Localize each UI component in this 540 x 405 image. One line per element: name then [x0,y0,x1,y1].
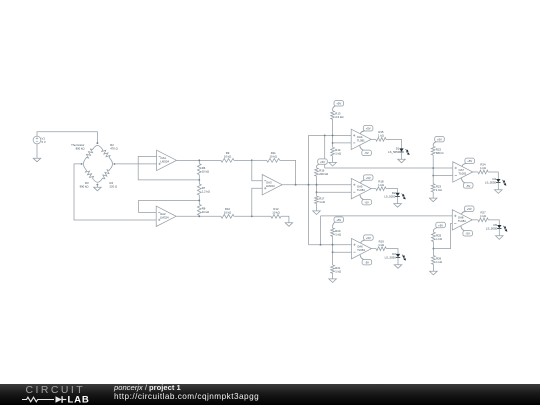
resistor out s2 [376,187,386,191]
wire +row stage3 [309,244,352,246]
svg-text:1 kΩ: 1 kΩ [335,152,341,156]
power +5V box stage 2 [318,159,328,164]
node vA x OA3 row [308,184,310,186]
op-amp OA2 [156,206,176,226]
svg-text:+5V: +5V [467,207,472,211]
svg-text:+5V: +5V [437,138,442,142]
wire OA6 out [370,248,376,250]
resistor divider-top s3 [331,228,335,236]
ground LED s1 [398,159,406,163]
resistor divider-top s5 [432,232,436,242]
op-amp OA4 [351,129,371,149]
node C [251,159,253,161]
LED D2 [395,193,399,196]
svg-text:TL081: TL081 [357,139,365,143]
svg-text:220 Ω: 220 Ω [110,185,118,189]
wire R9 to node C [234,159,252,161]
resistor R2 (bridge top-right) [101,148,112,169]
resistor divider-bottom s5 [432,256,436,265]
wire node C to OA3 -in [252,160,262,180]
power +5V box OA8 [464,206,474,211]
node OA3 +in drop [251,215,253,217]
resistor out s3 [376,247,386,251]
svg-text:+5V: +5V [366,127,371,131]
voltage source V1 [33,136,41,144]
wire OA8 out [471,219,478,221]
wire OA1 feedback [138,156,199,180]
wire divider to ground s1 [332,156,334,163]
resistor R10 [221,214,234,218]
wire vertical C [320,216,322,245]
wire LED to ground s5 [498,229,500,236]
op-amp OA3 [262,175,282,195]
wire R8 bottom lead [198,215,200,216]
svg-text:680 Ω: 680 Ω [436,151,444,155]
svg-text:1 kΩ: 1 kΩ [378,243,384,247]
wire -in L s5 [433,223,452,248]
wire R12 to ground [281,216,289,222]
node bridge bottom [96,184,98,186]
svg-text:-5V: -5V [466,232,470,236]
svg-text:1 kΩ: 1 kΩ [335,269,341,273]
svg-text:LS_5050: LS_5050 [385,255,397,259]
node OA3 out [295,184,297,186]
svg-text:+5V: +5V [336,102,341,106]
wire V1 to bridge top [37,132,97,143]
svg-text:10 kΩ: 10 kΩ [202,169,209,173]
power +5V box stage 4 [435,137,445,142]
wire R10 to R12 [234,215,271,217]
svg-text:1 kΩ: 1 kΩ [378,133,384,137]
wire divider chain s2 [316,176,318,196]
wire divider chain s1 [332,119,334,147]
wire R6-R7 (node A) [198,175,200,184]
svg-text:+5V: +5V [336,218,341,222]
svg-text:+5V: +5V [467,159,472,163]
svg-text:1 kΩ: 1 kΩ [319,200,325,204]
ground after R12 [285,223,293,227]
wire divider chain s3 [332,236,334,265]
LED D3 [396,254,400,257]
resistor divider-bottom s4 [431,184,435,192]
resistor divider-bottom s3 [331,265,335,273]
svg-text:-5V: -5V [365,260,369,264]
wire LED to ground s1 [401,152,403,159]
svg-text:LM324: LM324 [160,216,169,220]
ground LED s4 [495,190,503,194]
wire OA5 out [370,188,376,190]
svg-text:1 kΩ: 1 kΩ [378,183,384,187]
ground LED s2 [394,204,402,208]
wire divider to ground s5 [432,264,434,271]
ground under bridge [94,187,102,191]
wire R7-R8 (node B) [198,195,200,204]
wire out res to LED s5 [488,220,499,225]
power +5V box OA5 [363,175,373,180]
ground LED s5 [496,236,504,240]
power -5V box OA5 [362,199,372,204]
node chain minus s1 [332,142,334,144]
svg-text:LM324: LM324 [160,160,169,164]
wire OA7 out [472,171,478,173]
resistor R8 [197,204,201,215]
svg-text:470 Ω: 470 Ω [110,146,118,150]
wire out res to LED s1 [386,139,402,148]
svg-text:3.6 kΩ: 3.6 kΩ [335,115,343,119]
wire vertical B [324,135,326,168]
op-amp OA7 [453,162,473,182]
resistor R9 [221,158,234,162]
CircuitLab logo [14,384,114,405]
wire +5V to R top s1 [332,110,334,111]
resistor divider-bottom s1 [331,147,335,156]
svg-text:200 kΩ: 200 kΩ [319,172,328,176]
ground divider s2 [313,211,321,215]
resistor R11 [267,158,280,162]
wire LED to ground s4 [497,183,499,190]
wire -in s4 [433,175,453,177]
wire out res to LED s2 [386,189,398,193]
node OA1 out [198,159,200,161]
power +5V box stage 3 [334,217,344,222]
LED D4 [496,179,500,182]
wire divider to ground s2 [316,204,318,211]
power -5V box OA8 [463,231,473,236]
resistor out s1 [376,137,386,141]
wire bridge left node to OA2 +in [74,164,156,220]
wire +5V to R top s5 [432,231,434,232]
node B [198,199,200,201]
node chain plus s3 [332,244,334,246]
svg-text:10 kΩ: 10 kΩ [224,211,231,215]
svg-text:-5V: -5V [365,200,369,204]
svg-text:TL081: TL081 [357,248,365,252]
node chain minus s4 [432,175,434,177]
node chain minus s2 [316,191,318,193]
ground LED s3 [394,265,402,269]
wire V1 to ground [36,144,38,158]
wire +row stage5 [321,215,453,217]
wire divider chain s4 [432,155,434,184]
wire OA3 output [282,184,351,186]
power +5V box OA7 [465,158,475,163]
ground divider s4 [429,198,437,202]
node chain plus s4 [432,167,434,169]
svg-text:+5V: +5V [320,160,325,164]
resistor out s5 [478,218,488,222]
wire LED to ground s2 [397,197,399,204]
power -5V box OA4 [362,150,372,155]
resistor divider-top s2 [315,168,319,176]
wire divider to ground s3 [332,273,334,279]
wire -in s2 [317,191,352,193]
op-amp OA8 [452,210,472,230]
resistor R12 [271,214,281,218]
svg-text:LS_5050: LS_5050 [388,150,400,154]
svg-text:1 kΩ: 1 kΩ [480,214,486,218]
power +5V box OA4 [363,126,373,131]
svg-text:1 kΩ: 1 kΩ [436,237,442,241]
wire divider chain s5 [432,242,434,256]
LED D1 [399,148,403,151]
resistor divider-top s1 [331,111,335,120]
svg-text:10 kΩ: 10 kΩ [224,154,231,158]
wire -in s1 [333,142,352,144]
power +5V box stage 5 [436,222,446,227]
ground divider s5 [430,271,438,275]
node vC bottom [320,244,322,246]
svg-text:1 kΩ: 1 kΩ [480,166,486,170]
svg-text:990 kΩ: 990 kΩ [80,185,89,189]
svg-text:TL081: TL081 [458,171,466,175]
svg-text:800 kΩ: 800 kΩ [76,146,85,150]
wire R6 top lead [198,160,200,163]
svg-text:+5V: +5V [366,236,371,240]
svg-text:10 kΩ: 10 kΩ [202,210,209,214]
svg-text:LS_5050: LS_5050 [384,194,396,198]
node chain junction s5 [432,248,434,250]
thermistor RT1 (bridge top-left) [85,145,101,159]
svg-text:1.2 kΩ: 1.2 kΩ [202,190,210,194]
svg-text:-5V: -5V [365,151,369,155]
wire bridge right node to OA1 +in [114,163,156,165]
LED D5 [497,225,501,228]
wire +5V to R top s4 [432,145,434,146]
wire +5V to R top s2 [316,167,318,168]
wire divider to ground s4 [432,192,434,198]
svg-text:1 kΩ: 1 kΩ [436,188,442,192]
power +5V box stage 1 [334,101,344,106]
node vB top [324,134,326,136]
ground under V1 [33,158,41,162]
wire +row stage1 [309,134,352,136]
resistor R3 (bridge bottom-left) [83,159,93,180]
node A [198,179,200,181]
power -5V box OA6 [362,259,372,264]
resistor R7 [197,184,201,195]
ground divider s3 [329,279,337,283]
wire +5V to R top s3 [332,227,334,228]
svg-text:TL081: TL081 [458,219,466,223]
svg-text:10 kΩ: 10 kΩ [272,211,279,215]
svg-text:LS_5050: LS_5050 [485,181,497,185]
svg-text:TL081: TL081 [357,188,365,192]
resistor divider-bottom s2 [315,196,319,203]
svg-text:10 kΩ: 10 kΩ [270,154,277,158]
svg-text:LS_5050: LS_5050 [486,227,498,231]
svg-text:LM324: LM324 [266,184,275,188]
svg-text:LAB: LAB [68,395,90,405]
node chain minus s3 [332,251,334,253]
wire out res to LED s4 [488,172,498,179]
op-amp OA5 [351,178,371,198]
node chain plus s2 [316,184,318,186]
svg-text:-5V: -5V [466,184,470,188]
node bridge top [96,142,98,144]
node bridge right [113,163,115,165]
wire bridge bottom to ground [96,185,98,188]
svg-text:1 kΩ: 1 kΩ [436,260,442,264]
resistor divider-top s4 [431,146,435,155]
wire vertical A [308,135,310,244]
node chain plus s1 [332,134,334,136]
wire -in s3 [333,251,352,253]
power +5V box OA6 [364,235,374,240]
power -5V box OA7 [463,183,473,188]
op-amp OA6 [352,238,372,258]
wire OA3 +in [252,188,262,216]
ground divider s1 [329,162,337,166]
svg-text:+5V: +5V [438,223,443,227]
svg-text:+5V: +5V [366,176,371,180]
resistor out s4 [478,170,488,174]
wire OA2 output [176,215,221,217]
svg-text:5 V: 5 V [42,140,46,144]
resistor R6 [197,164,201,175]
wire node C to R11 [252,159,267,161]
resistor R4 (bridge bottom-right) [94,169,111,183]
wire OA1 output [177,159,222,161]
node bridge left [81,163,83,165]
wire LED to ground s3 [397,258,399,265]
wire +row stage4 [325,167,453,169]
op-amp OA1 [157,150,177,170]
wire OA4 out [370,138,376,140]
node R8-OA2 out [198,215,200,217]
wire R11 to OA3 out [280,160,296,184]
wire out res to LED s3 [386,249,398,254]
svg-text:1 kΩ: 1 kΩ [335,232,341,236]
wire OA2 feedback [139,200,200,212]
